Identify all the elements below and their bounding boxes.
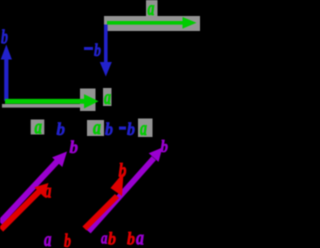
svg-text:b: b <box>108 229 116 248</box>
svg-text:b: b <box>161 137 169 156</box>
gray label box behind green a (top, clipped) <box>146 0 158 16</box>
svg-text:a: a <box>44 227 52 248</box>
svg-text:b: b <box>127 229 135 248</box>
blue label -b <box>84 47 93 50</box>
svg-text:b: b <box>57 119 66 139</box>
svg-text:b: b <box>1 27 8 49</box>
red arrow : head <box>111 173 124 197</box>
blue arrow -b (downward) : head <box>100 62 112 77</box>
svg-text:b: b <box>127 119 135 139</box>
blue minus (caption 2) <box>119 127 126 130</box>
green arrow a (bottom of top-left fig) : shaft <box>5 99 85 104</box>
svg-text:a: a <box>104 87 111 109</box>
blue arrow b (upward) : head <box>1 45 12 60</box>
svg-text:b: b <box>105 119 113 139</box>
green arrow a (top right) : head <box>183 17 197 29</box>
svg-text:b: b <box>119 160 127 182</box>
red arrow a : head <box>34 183 48 197</box>
red arrow a : shaft <box>1 191 40 230</box>
gray box at green arrowhead <box>80 89 96 112</box>
gray band behind green arrow a (top right) <box>104 16 200 31</box>
svg-text:a: a <box>35 117 43 139</box>
svg-text:b: b <box>64 231 71 248</box>
svg-text:a: a <box>101 229 108 248</box>
svg-text:a: a <box>140 116 147 140</box>
purple arrow : shaft <box>89 158 154 231</box>
purple arrow : head <box>149 148 163 162</box>
svg-text:a: a <box>136 226 144 248</box>
svg-text:a: a <box>148 0 155 20</box>
gray label box behind green a <box>103 88 112 106</box>
green arrow a : head <box>84 94 99 108</box>
blue arrow -b (downward) : shaft <box>104 25 108 64</box>
svg-text:b: b <box>94 40 101 60</box>
purple arrow b : shaft <box>0 161 58 223</box>
gray box behind green a (caption 2) <box>87 120 104 136</box>
blue arrow b (upward) : shaft <box>4 59 8 102</box>
red arrow : shaft <box>85 196 118 229</box>
green arrow a (top right) : shaft <box>107 21 184 25</box>
svg-text:a: a <box>93 117 101 139</box>
gray box behind green a (caption 1) <box>31 120 45 135</box>
svg-text:b: b <box>70 137 79 157</box>
gray band under green shaft <box>2 104 80 108</box>
svg-text:a: a <box>44 179 52 203</box>
purple arrow b : head <box>52 152 67 168</box>
gray box behind green a2 (caption 2) <box>138 119 153 138</box>
